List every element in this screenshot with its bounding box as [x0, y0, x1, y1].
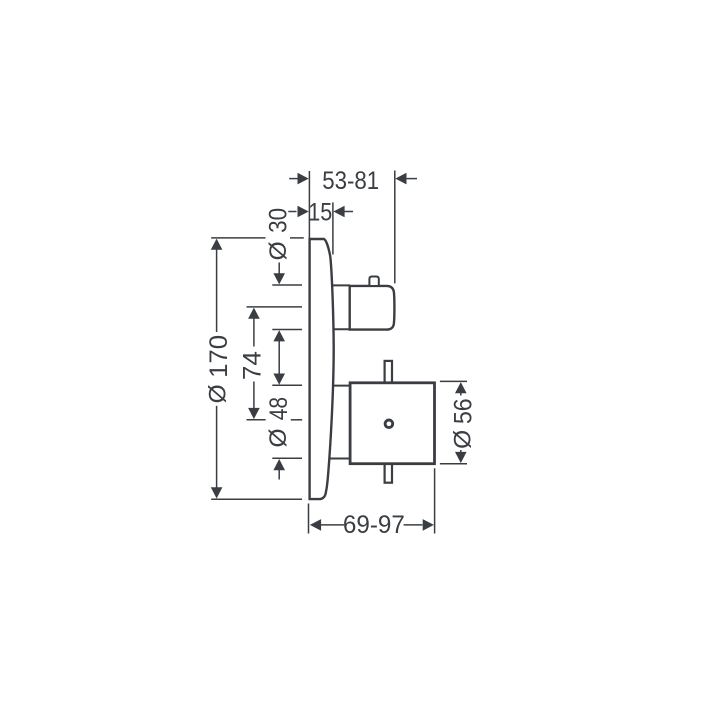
svg-text:Ø: Ø — [265, 428, 292, 447]
svg-text:74: 74 — [238, 351, 266, 380]
svg-text:56: 56 — [450, 398, 478, 424]
svg-text:Ø: Ø — [449, 430, 476, 449]
labels — [204, 167, 477, 539]
svg-text:30: 30 — [265, 208, 293, 233]
extension line right for 15 — [332, 202, 334, 254]
arrow 69-97 right (points right) — [423, 519, 434, 531]
dimension Ø48 tail below — [278, 469, 280, 479]
lower handle neck top line — [332, 385, 350, 387]
dimension 74 line — [253, 318, 255, 347]
arrow 15 left (points right) — [298, 206, 309, 218]
temperature stop button on upper handle — [369, 277, 378, 286]
arrow 15 right (points left) — [333, 206, 344, 218]
bottom pin of lower handle — [385, 462, 392, 483]
lower handle neck bottom line — [329, 458, 350, 460]
dimension 53-81 tails — [289, 178, 297, 180]
arrow 74 top (points up) — [248, 308, 260, 319]
dimension Ø56 line — [460, 392, 462, 396]
top pin of lower handle — [385, 361, 392, 384]
svg-text:Ø: Ø — [265, 241, 292, 260]
arrow Ø30 bottom (points up at tick) — [273, 330, 285, 341]
lower handle square body — [350, 383, 434, 464]
arrow Ø170 bottom (points down) — [211, 487, 223, 498]
arrow Ø30 top (points down at tick) — [273, 273, 285, 284]
dimension Ø170 ticks — [211, 237, 265, 239]
arrow Ø56 top (points up) — [455, 382, 467, 393]
arrow 53-81 left (points right) — [298, 173, 309, 185]
upper handle neck top line — [333, 284, 350, 286]
extension line right for 53-81 — [394, 171, 396, 284]
dimension Ø48 ticks — [272, 384, 302, 386]
upper handle body — [350, 286, 395, 330]
dimension 15 tails — [288, 211, 296, 213]
arrowheads — [211, 173, 467, 531]
upper handle neck bottom line — [333, 328, 350, 330]
svg-text:69-97: 69-97 — [343, 511, 405, 539]
dimension Ø30 tail above — [278, 263, 280, 275]
arrow Ø48 top (points down at tick) — [273, 374, 285, 385]
svg-text:15: 15 — [308, 198, 332, 226]
dimension Ø30 ticks — [272, 284, 302, 286]
extension line right for 69-97 — [434, 468, 436, 533]
svg-text:53-81: 53-81 — [322, 167, 379, 195]
dimension Ø56 ticks — [440, 380, 467, 382]
svg-text:170: 170 — [205, 335, 233, 378]
dimension Ø170 line — [216, 249, 218, 332]
extension line left for 69-97 — [308, 504, 310, 534]
arrow Ø56 bottom (points down) — [455, 452, 467, 463]
arrow Ø170 top (points up) — [211, 239, 223, 250]
dimension 74 ticks — [247, 306, 303, 308]
dimension 69-97 line — [321, 524, 344, 526]
arrow Ø48 bottom (points up at tick) — [273, 459, 285, 470]
center screw dot on lower handle — [385, 420, 393, 428]
arrow 69-97 left (points left) — [310, 519, 321, 531]
svg-text:Ø: Ø — [204, 384, 231, 403]
extension line left of plate (for 53-81 and 15) — [308, 171, 310, 238]
arrow 74 bottom (points down) — [248, 408, 260, 419]
joint tail between Ø30 and Ø48 outside arrows — [278, 341, 280, 376]
escutcheon plate side profile — [310, 239, 334, 499]
svg-text:48: 48 — [265, 397, 293, 420]
arrow 53-81 right (points left) — [395, 173, 406, 185]
